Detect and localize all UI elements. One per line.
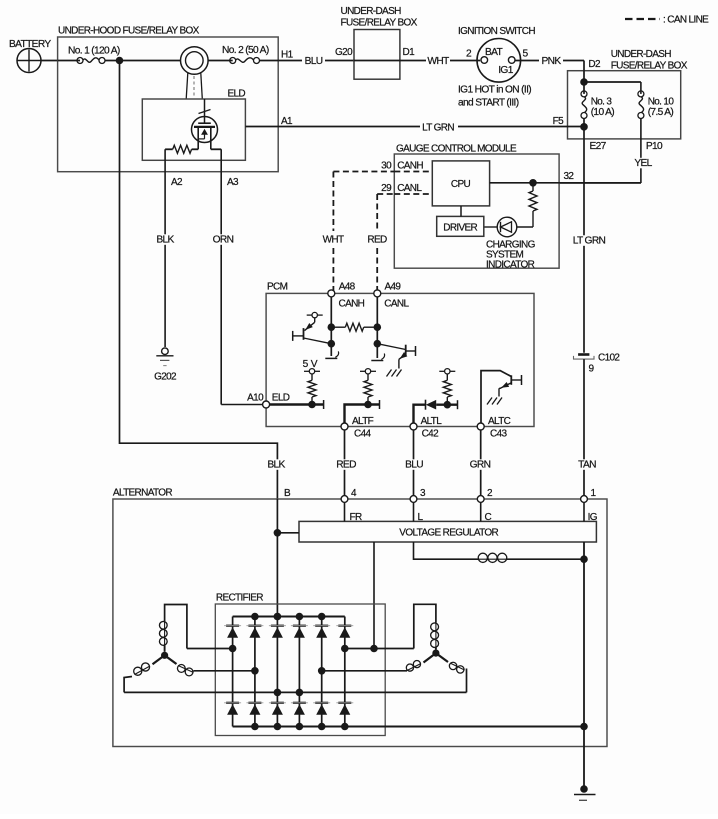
svg-text:UNDER-DASH: UNDER-DASH [341,6,402,17]
svg-text:ALTC: ALTC [488,416,511,427]
svg-text:(7.5 A): (7.5 A) [648,107,674,118]
svg-text:ALTF: ALTF [352,416,374,427]
svg-text:No. 2 (50 A): No. 2 (50 A) [222,45,269,56]
svg-text:G202: G202 [154,372,177,383]
svg-text:(10 A): (10 A) [591,107,615,118]
svg-text:TAN: TAN [578,460,596,471]
svg-text:B: B [284,488,291,499]
svg-text:ELD: ELD [272,393,290,404]
svg-text:CANL: CANL [397,183,422,194]
svg-text:A49: A49 [385,282,402,293]
svg-text:CANL: CANL [384,299,409,310]
svg-text:GRN: GRN [470,460,491,471]
svg-text:CANH: CANH [397,161,423,172]
svg-text:32: 32 [564,171,575,182]
svg-text:ORN: ORN [213,235,234,246]
svg-text:C44: C44 [354,429,371,440]
svg-text:D1: D1 [403,47,416,58]
svg-text:UNDER-DASH: UNDER-DASH [611,49,672,60]
svg-text:BAT: BAT [485,47,503,58]
svg-text:D2: D2 [588,59,601,70]
svg-text:30: 30 [381,161,392,172]
svg-text:A3: A3 [227,177,239,188]
svg-text:BLK: BLK [156,235,174,246]
svg-text:CANH: CANH [339,299,365,310]
svg-text:A1: A1 [281,116,293,127]
svg-text:5 V: 5 V [303,359,318,370]
svg-text:A2: A2 [171,177,183,188]
svg-text:IG1: IG1 [498,65,513,76]
svg-text:WHT: WHT [427,56,449,67]
svg-text:E27: E27 [590,141,607,152]
svg-text:RED: RED [336,460,356,471]
svg-text:FUSE/RELAY BOX: FUSE/RELAY BOX [341,18,418,29]
svg-text:A10: A10 [247,393,264,404]
svg-text:H1: H1 [281,50,294,61]
svg-text:VOLTAGE REGULATOR: VOLTAGE REGULATOR [399,527,498,538]
svg-text:IGNITION SWITCH: IGNITION SWITCH [458,26,535,37]
svg-text:FUSE/RELAY BOX: FUSE/RELAY BOX [611,61,688,72]
svg-text:: CAN LINE: : CAN LINE [663,15,709,26]
svg-text:RECTIFIER: RECTIFIER [216,593,263,604]
svg-text:C43: C43 [490,429,507,440]
svg-text:G20: G20 [335,47,353,58]
svg-text:F5: F5 [553,116,564,127]
svg-text:29: 29 [381,183,392,194]
svg-text:CPU: CPU [451,179,471,190]
svg-text:BLK: BLK [267,460,285,471]
svg-text:No. 1 (120 A): No. 1 (120 A) [68,45,120,56]
svg-text:LT GRN: LT GRN [573,236,606,247]
svg-text:and START (III): and START (III) [458,98,519,109]
svg-text:C42: C42 [422,429,439,440]
svg-text:C102: C102 [598,353,620,364]
svg-text:PCM: PCM [267,282,288,293]
svg-text:INDICATOR: INDICATOR [486,260,535,271]
svg-text:WHT: WHT [323,235,344,246]
svg-text:No. 3: No. 3 [591,96,613,107]
svg-text:PNK: PNK [542,56,562,67]
svg-text:P10: P10 [646,141,663,152]
svg-text:ALTERNATOR: ALTERNATOR [113,488,172,499]
svg-text:GAUGE CONTROL MODULE: GAUGE CONTROL MODULE [396,144,517,155]
svg-text:ALTL: ALTL [421,416,443,427]
svg-text:BLU: BLU [305,56,323,67]
svg-text:YEL: YEL [634,158,652,169]
svg-text:BLU: BLU [405,460,423,471]
svg-text:IG1 HOT in ON (II): IG1 HOT in ON (II) [458,84,531,95]
svg-text:RED: RED [367,235,387,246]
svg-text:ELD: ELD [227,89,245,100]
svg-text:DRIVER: DRIVER [443,223,477,234]
svg-text:A48: A48 [339,282,356,293]
svg-text:No. 10: No. 10 [648,96,675,107]
svg-text:UNDER-HOOD FUSE/RELAY BOX: UNDER-HOOD FUSE/RELAY BOX [58,26,200,37]
svg-text:LT GRN: LT GRN [422,123,454,134]
